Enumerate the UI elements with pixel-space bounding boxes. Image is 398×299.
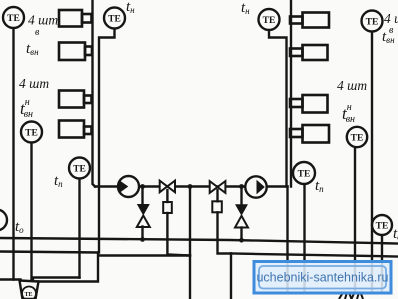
radiator R4 [290, 125, 329, 143]
wire t_n left sensor hook [99, 29, 115, 253]
wire drop below main junction right [286, 187, 288, 292]
sensor TE8 t_p right [293, 162, 315, 184]
node main-line center branch [188, 184, 193, 189]
radiator R3 [290, 95, 328, 113]
wire drop from TE7 t_p left [78, 179, 80, 278]
orifice square left [163, 202, 172, 213]
wire valve stem right [216, 190, 218, 201]
sensor TE3 t_n right [259, 9, 280, 30]
watermark box [254, 262, 391, 294]
svg-text:ТЕ: ТЕ [7, 14, 20, 24]
wire drop from TE6 [354, 148, 356, 292]
radiator R2 [290, 45, 328, 60]
sensor TE9 t_o left edge [0, 210, 7, 231]
wire elevator feed left [0, 278, 21, 280]
orifice square right [212, 201, 222, 212]
wire check valve branch right upper [240, 187, 242, 205]
wire t_n right sensor hook [269, 30, 287, 187]
svg-text:в: в [35, 27, 40, 38]
wire main pump line [95, 185, 288, 187]
sensor TE1 [3, 7, 24, 28]
svg-text:ТЕ: ТЕ [24, 292, 32, 298]
svg-text:4 шт: 4 шт [337, 78, 367, 93]
svg-text:ТЕ: ТЕ [366, 18, 379, 28]
node line1 right [239, 238, 244, 243]
heat exchanger hatched (bottom right) [339, 293, 363, 299]
sensor TE2 t_n left [104, 8, 125, 29]
node line1 left [140, 237, 145, 242]
wire drop from TE10 [381, 235, 383, 291]
node main-line left branch [140, 184, 145, 189]
wire right riser (building right wall) [290, 0, 292, 187]
wire elevator feed upper [33, 278, 80, 282]
svg-text:ТЕ: ТЕ [108, 15, 121, 25]
elevator funnel [20, 281, 39, 299]
sensor TE7 t_p left [69, 158, 90, 179]
svg-text:ТЕ: ТЕ [25, 129, 38, 139]
wire supply header line2 left [0, 252, 98, 253]
wire supply header line2 middle [99, 254, 190, 256]
wire drop from TE8 t_p right [303, 184, 305, 291]
svg-text:uchebniki-santehnika.ru: uchebniki-santehnika.ru [256, 271, 388, 285]
svg-text:ТЕ: ТЕ [351, 134, 364, 144]
check valve left [137, 204, 150, 227]
node main-line right branch [239, 184, 244, 189]
radiator L1 [59, 10, 92, 27]
check valve right [235, 204, 248, 227]
wire drop from TE5 [30, 143, 32, 285]
wire drop from TE1 [12, 28, 14, 280]
svg-text:ТЕ: ТЕ [73, 165, 86, 175]
radiator R1 [290, 13, 329, 28]
wire valve stem left [166, 190, 168, 202]
sensor TE4 far right [362, 11, 383, 32]
valve V2 [210, 181, 226, 193]
svg-text:ТЕ: ТЕ [298, 170, 311, 180]
radiator L3 [59, 91, 92, 108]
sensor TE5 left middle [21, 122, 42, 143]
wire elevator feed right [37, 253, 98, 282]
wire left riser (building left wall) [93, 0, 96, 187]
wire check valve branch right lower [240, 228, 242, 241]
wire return header line1 [0, 238, 398, 244]
sensor TE10 bottom right [372, 215, 392, 235]
wire drop center to bottom [189, 187, 191, 299]
pump H2 [245, 176, 266, 197]
pump H1 [118, 176, 139, 197]
wire supply header line2 right [231, 254, 398, 257]
wire orifice drop right [218, 212, 232, 253]
svg-text:ТЕ: ТЕ [263, 16, 276, 26]
wire check valve branch left upper [141, 187, 143, 205]
wire drop from TE4 [371, 32, 373, 292]
radiator L2 [59, 43, 92, 61]
svg-text:4 шт: 4 шт [384, 11, 398, 26]
svg-text:4 шт: 4 шт [28, 13, 58, 28]
radiator L4 [59, 121, 92, 138]
wire check valve branch left lower [141, 227, 143, 240]
sensor TE6 right middle [347, 127, 367, 147]
valve V1 [160, 181, 175, 193]
svg-text:4 шт: 4 шт [19, 76, 49, 91]
wire orifice drop left [167, 213, 190, 256]
svg-text:ТЕ: ТЕ [376, 222, 389, 232]
wire drop right of center to bottom [230, 254, 232, 299]
